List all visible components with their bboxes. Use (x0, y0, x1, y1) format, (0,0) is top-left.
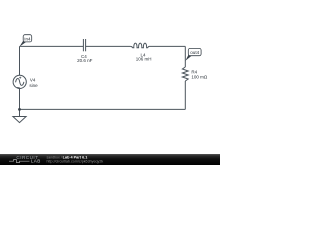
capacitor C4 plates (82, 39, 84, 51)
voltage source minus mark (17, 86, 20, 88)
wire ground stub (19, 109, 21, 116)
node label out4 box (188, 48, 201, 55)
wire right vertical below resistor (184, 81, 186, 109)
wire bottom horizontal (20, 108, 186, 110)
resistor R4 zigzag (182, 67, 188, 81)
node label out4 pointer (185, 55, 191, 61)
inductor L4 coil (130, 43, 149, 48)
wire left vertical below source (19, 88, 21, 109)
voltage source V4 circle (13, 75, 26, 88)
ground symbol (13, 117, 26, 123)
wire top-left horizontal (20, 45, 84, 47)
footer bar (0, 154, 220, 165)
node label in4 box (23, 35, 32, 42)
logo waveform (9, 160, 30, 163)
svg-text:http://circuitlab.com/c/pk63hy: http://circuitlab.com/c/pk63hyeqy2k (47, 160, 104, 164)
voltage source sine wave (16, 79, 24, 86)
svg-text:LAB: LAB (31, 159, 41, 164)
junction node dot (18, 108, 21, 111)
wire right vertical above resistor (184, 46, 186, 67)
voltage source plus mark (19, 77, 21, 79)
wire inductor to right corner (149, 45, 185, 47)
node label in4 pointer (19, 41, 26, 47)
wire cap to inductor (86, 45, 130, 47)
wire left vertical above source (19, 46, 21, 75)
